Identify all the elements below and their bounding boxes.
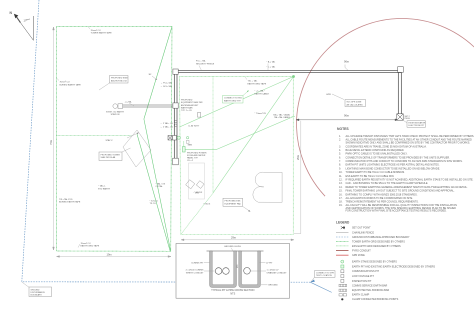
svg-text:TOWER EARTH TO BE 70mm² CU CAB: TOWER EARTH TO BE 70mm² CU CABLE MINIMUM… bbox=[346, 171, 406, 174]
svg-text:CHAINLINK FENCE: CHAINLINK FENCE bbox=[352, 231, 374, 234]
svg-text:REFER TO TOWER EARTHING GENERA: REFER TO TOWER EARTHING GENERAL ARRANGEM… bbox=[346, 186, 468, 189]
callout stay anchor bbox=[99, 76, 128, 91]
svg-text:BURIED EARTH TAPE: BURIED EARTH TAPE bbox=[59, 201, 81, 204]
svg-text:CLAMP CONNECTED BONDING POINTS: CLAMP CONNECTED BONDING POINTS bbox=[352, 298, 399, 301]
svg-text:PROPOSED TOWER: PROPOSED TOWER bbox=[101, 154, 121, 156]
legend symbol: earth clamp bbox=[339, 294, 347, 296]
svg-text:10.: 10. bbox=[339, 171, 343, 174]
svg-text:7.: 7. bbox=[339, 160, 341, 163]
svg-text:11.: 11. bbox=[339, 175, 343, 178]
svg-text:14.: 14. bbox=[339, 186, 343, 189]
dimension line below ESS grid bbox=[181, 239, 294, 241]
svg-text:⌜ TAL / XX: ⌜ TAL / XX bbox=[156, 182, 166, 185]
svg-text:13.: 13. bbox=[339, 182, 343, 185]
svg-text:PEGS: PEGS bbox=[405, 118, 411, 120]
svg-text:← 2 TAL+ CU: ← 2 TAL+ CU bbox=[160, 122, 173, 125]
svg-text:TAL+TAL CABLE: TAL+TAL CABLE bbox=[274, 116, 290, 119]
svg-text:ESS EARTH TO BE 70mm² CU CABLE: ESS EARTH TO BE 70mm² CU CABLE MIN. bbox=[346, 175, 395, 178]
north arrow bbox=[17, 16, 34, 40]
ESS branch horizontal bbox=[185, 148, 217, 150]
svg-text:EARTH PIT AND EXISTING EARTH E: EARTH PIT AND EXISTING EARTH ELECTRODE D… bbox=[352, 265, 435, 268]
svg-text:EARTH GRID TYP.: EARTH GRID TYP. bbox=[224, 100, 241, 103]
svg-text:96m: 96m bbox=[344, 60, 349, 64]
legend symbol: chainlink fence bbox=[336, 231, 349, 233]
lv conduit bbox=[244, 268, 251, 275]
svg-text:CAD - CAD BONDING TO BE 95mm²: CAD - CAD BONDING TO BE 95mm² TO THE EAR… bbox=[346, 182, 429, 185]
svg-text:96m: 96m bbox=[344, 114, 349, 118]
svg-text:ALL UPGRADE TRENCH DISTANCES T: ALL UPGRADE TRENCH DISTANCES THAT LETS H… bbox=[346, 135, 474, 138]
svg-text:TXL+TAL SYD: TXL+TAL SYD bbox=[59, 198, 73, 201]
svg-text:18.: 18. bbox=[339, 201, 343, 204]
earth stake green bbox=[177, 136, 180, 139]
fence corner box bbox=[398, 67, 404, 73]
svg-text:ESS EARTH GRID DESIGNED BY OTH: ESS EARTH GRID DESIGNED BY OTHERS bbox=[352, 245, 401, 248]
svg-text:SECURITY FENCE: SECURITY FENCE bbox=[196, 63, 215, 65]
svg-text:PROPOSED STAY: PROPOSED STAY bbox=[111, 77, 128, 80]
svg-text:⌜ +L+ TAL°: ⌜ +L+ TAL° bbox=[255, 90, 265, 93]
svg-text:← 2 TAL+ CU: ← 2 TAL+ CU bbox=[160, 125, 173, 128]
callout boundary right bbox=[310, 271, 335, 283]
svg-text:NOTES: NOTES bbox=[337, 127, 349, 131]
bonding cluster bbox=[168, 136, 177, 141]
legend symbol: ess earth grid bbox=[336, 245, 349, 247]
svg-text:LL AT NXTT: LL AT NXTT bbox=[189, 124, 201, 127]
svg-text:EARTH GRID TAPE: EARTH GRID TAPE bbox=[81, 245, 100, 248]
label ess right bbox=[273, 113, 291, 119]
svg-text:BOUNDARY: BOUNDARY bbox=[31, 294, 43, 297]
svg-text:STAY X: STAY X bbox=[106, 139, 114, 142]
svg-text:IF REQUIRED EARTH RESISTIVITY: IF REQUIRED EARTH RESISTIVITY IS NOT ACH… bbox=[346, 179, 474, 182]
svg-text:EQUIPMENT PAD: EQUIPMENT PAD bbox=[225, 202, 242, 205]
svg-text:⌜ A = TAL: ⌜ A = TAL bbox=[267, 61, 277, 64]
svg-text:EARTHING TO COMPLY WITH AS/NZS: EARTHING TO COMPLY WITH AS/NZS 3000:2018… bbox=[346, 193, 418, 196]
svg-text:4.: 4. bbox=[339, 149, 341, 152]
svg-text:EARTH STAKE DESIGNED BY OTHERS: EARTH STAKE DESIGNED BY OTHERS bbox=[352, 261, 397, 264]
dimension line left of tower grid bbox=[53, 27, 55, 250]
label spur conduit bbox=[125, 100, 135, 106]
svg-text:CU TAL: CU TAL bbox=[156, 185, 164, 188]
svg-text:ORANGE CONDUIT: ORANGE CONDUIT bbox=[267, 271, 288, 274]
svg-text:AS CALCULATED: AS CALCULATED bbox=[347, 103, 364, 106]
inspection points on trench bbox=[175, 120, 177, 122]
dimension line along compound fence bbox=[345, 65, 348, 71]
ESS edge tick bbox=[292, 116, 296, 118]
legend symbol: equipotential bonding bar bbox=[339, 289, 347, 291]
svg-text:SHOWN INDICATIVE ONLY AND SHAL: SHOWN INDICATIVE ONLY AND SHALL BE CONFI… bbox=[346, 141, 471, 144]
svg-text:70mm² CU: 70mm² CU bbox=[60, 81, 71, 84]
trench end pit bbox=[173, 158, 179, 165]
svg-text:36°: 36° bbox=[149, 74, 152, 76]
ESS diagonal conductor 1 bbox=[180, 77, 294, 128]
tower stay conductor B bbox=[144, 119, 171, 251]
svg-text:TX CU: TX CU bbox=[150, 203, 157, 205]
earth stake at kiosk bbox=[186, 137, 188, 139]
svg-text:SET OUT POINT: SET OUT POINT bbox=[352, 227, 371, 230]
svg-text:16.: 16. bbox=[339, 193, 343, 196]
callout gpr zone bbox=[326, 94, 366, 107]
tower grid branch (horizontal) bbox=[57, 134, 132, 136]
svg-text:ALL EXCAVATION WORKS TO BE COO: ALL EXCAVATION WORKS TO BE COORDINATED O… bbox=[346, 197, 414, 200]
svg-text:19m: 19m bbox=[107, 252, 112, 256]
svg-text:FCL + TAL: FCL + TAL bbox=[196, 60, 207, 63]
svg-text:6.: 6. bbox=[339, 156, 341, 159]
svg-text:19.: 19. bbox=[339, 204, 343, 207]
svg-text:LEGEND: LEGEND bbox=[336, 220, 350, 224]
svg-text:COMMS PIT: COMMS PIT bbox=[191, 262, 204, 264]
svg-text:TAL+ TAL / LATAL: TAL+ TAL / LATAL bbox=[273, 113, 291, 116]
svg-text:SYD EARTH: SYD EARTH bbox=[98, 187, 110, 190]
tower earth grid rectangle (green dotted) bbox=[57, 27, 173, 252]
legend symbol: earth stake bbox=[341, 260, 344, 263]
lv pit walls bbox=[239, 251, 261, 288]
dimension line GPR radius bbox=[296, 119, 398, 121]
svg-text:CONNECTION DETAILS OF TRANSFOR: CONNECTION DETAILS OF TRANSFORMERS TO BE… bbox=[346, 156, 451, 159]
callout ess slab bbox=[223, 198, 251, 212]
svg-text:GPR: GPR bbox=[326, 94, 331, 96]
svg-text:TYPICAL PIT & PIPE CROSS SECTI: TYPICAL PIT & PIPE CROSS SECTION bbox=[211, 289, 254, 292]
comms conduit 1 bbox=[215, 268, 222, 275]
svg-text:DISTURBANCE: DISTURBANCE bbox=[31, 291, 46, 294]
label tower grid tape top bbox=[88, 27, 112, 35]
notes list bbox=[339, 135, 474, 213]
svg-text:EARTH CLAMP: EARTH CLAMP bbox=[352, 294, 370, 297]
svg-text:17°: 17° bbox=[24, 19, 28, 23]
pit connector bbox=[183, 141, 185, 147]
svg-text:FOR CONSTRUCTION WITH FINAL SI: FOR CONSTRUCTION WITH FINAL SITE ACCEPTA… bbox=[346, 209, 448, 212]
svg-text:BLUE METAL EXTEND COMPOUND AS: BLUE METAL EXTEND COMPOUND AS REQUIRED. bbox=[346, 149, 405, 152]
north arrowhead N bbox=[10, 11, 28, 23]
svg-text:⌜ TAL/XX: ⌜ TAL/XX bbox=[194, 191, 203, 194]
detail box frame bbox=[176, 244, 290, 299]
svg-text:⌜ XXL/X: ⌜ XXL/X bbox=[203, 203, 211, 206]
svg-text:⌜ 70mm² CU: ⌜ 70mm² CU bbox=[255, 112, 267, 115]
svg-text:5.: 5. bbox=[339, 153, 341, 156]
svg-text:EARTH BAR: EARTH BAR bbox=[181, 106, 193, 109]
GPR zone arc (red) bbox=[297, 19, 474, 230]
compound fence top (black double line) bbox=[174, 71, 401, 73]
legend symbol: earth pit bbox=[341, 265, 344, 268]
label ess grid top bbox=[245, 77, 267, 85]
tower stay conductor C bbox=[137, 134, 170, 251]
kiosk slab outline bbox=[189, 163, 205, 199]
lv pit label bbox=[266, 262, 287, 286]
ground level line bbox=[207, 250, 264, 252]
svg-text:PROPOSED ESS: PROPOSED ESS bbox=[225, 201, 242, 203]
svg-text:+L+TAL: +L+TAL bbox=[125, 100, 133, 103]
svg-text:GROUND DISTURBANCE APPROVED BO: GROUND DISTURBANCE APPROVED BOUNDARY bbox=[352, 236, 410, 239]
junction box mid bbox=[173, 103, 178, 108]
comms pit label bbox=[186, 262, 205, 274]
svg-text:COMMUNICATIONS PIT: COMMUNICATIONS PIT bbox=[352, 270, 380, 273]
building rotated (tower shelter) bbox=[123, 130, 151, 167]
svg-text:GROUND LEVEL: GROUND LEVEL bbox=[224, 246, 242, 248]
legend symbol: gpr zone bbox=[336, 254, 349, 256]
svg-text:ANCHOR BLOCK: ANCHOR BLOCK bbox=[111, 80, 128, 83]
svg-text:KIOSK AND METER: KIOSK AND METER bbox=[187, 154, 206, 157]
svg-text:1.: 1. bbox=[339, 135, 341, 138]
text block right of trench bbox=[181, 100, 203, 128]
ground disturbance boundary (blue dashed) bbox=[22, 0, 311, 282]
svg-text:EARTH CABLE: EARTH CABLE bbox=[255, 92, 270, 95]
spur conduit (black double line) bbox=[122, 105, 175, 107]
label earth stake left bbox=[106, 111, 124, 117]
svg-text:PARK OPTIC CABLE IS TO BE UNAL: PARK OPTIC CABLE IS TO BE UNALINSTALLED … bbox=[346, 153, 408, 156]
svg-text:ANTENNA MOUNT: ANTENNA MOUNT bbox=[181, 104, 199, 107]
label stay vertex bbox=[106, 133, 140, 142]
callout ess connect bbox=[223, 90, 250, 103]
ESS earth grid rectangle (light green dotted) bbox=[180, 77, 294, 235]
svg-text:COMMS SERVICE EARTH BAR: COMMS SERVICE EARTH BAR bbox=[352, 284, 387, 287]
svg-text:← FCL+TAL: ← FCL+TAL bbox=[161, 82, 173, 85]
legend symbol: bonding point bbox=[341, 298, 343, 300]
svg-text:EQUIPOTENTIAL BONDING BAR: EQUIPOTENTIAL BONDING BAR bbox=[352, 289, 389, 292]
svg-text:GROUND: GROUND bbox=[268, 285, 278, 287]
svg-text:TOWER EARTH GRID DESIGNED BY O: TOWER EARTH GRID DESIGNED BY OTHERS bbox=[352, 240, 405, 243]
legend symbol: comms service earth bar bbox=[339, 284, 347, 286]
boundary leader to GPR point (blue solid) bbox=[310, 282, 331, 292]
legend symbol: inspection pit bbox=[341, 279, 344, 282]
svg-text:EARTH GRID TAPE: EARTH GRID TAPE bbox=[248, 82, 267, 85]
svg-text:NTS: NTS bbox=[230, 292, 235, 295]
svg-text:GPR ZONE: GPR ZONE bbox=[352, 254, 365, 257]
svg-text:TYP. 2 x CU: TYP. 2 x CU bbox=[181, 110, 192, 112]
svg-text:2.: 2. bbox=[339, 139, 341, 142]
fence right vertical (black double line) bbox=[398, 71, 401, 117]
svg-text:ELECTRODE PIT: ELECTRODE PIT bbox=[409, 125, 426, 127]
svg-text:EXIST. CU EARTH: EXIST. CU EARTH bbox=[106, 111, 124, 114]
svg-text:FINAL TOWER EARTHING LAYOUT SU: FINAL TOWER EARTHING LAYOUT SUBJECT TO S… bbox=[346, 190, 455, 193]
legend list text bbox=[352, 227, 435, 302]
svg-text:BURIED EARTH TAPE: BURIED EARTH TAPE bbox=[60, 83, 82, 86]
ESS diagonal conductor 2 bbox=[213, 77, 294, 194]
tower stay conductor A bbox=[144, 27, 172, 120]
svg-text:1 x Ø100 LV: 1 x Ø100 LV bbox=[267, 270, 280, 272]
bearing annotation bbox=[149, 74, 158, 80]
trench left vertical (black double line) bbox=[174, 71, 177, 159]
svg-text:TRENCH REINSTATEMENT AS PER CO: TRENCH REINSTATEMENT AS PER COUNCIL REQU… bbox=[346, 201, 419, 204]
svg-text:17.: 17. bbox=[339, 197, 343, 200]
svg-text:SHELTER SLAB: SHELTER SLAB bbox=[101, 156, 116, 159]
svg-text:TXL + TAL: TXL + TAL bbox=[248, 80, 259, 83]
svg-text:75m: 75m bbox=[49, 140, 53, 145]
ESS corner node bbox=[292, 75, 295, 78]
ESS building bbox=[253, 172, 282, 202]
svg-text:CU x 2: CU x 2 bbox=[187, 160, 194, 162]
label left lower2 bbox=[59, 198, 81, 204]
callout electrode bbox=[404, 116, 426, 127]
svg-text:70mm² CU: 70mm² CU bbox=[91, 29, 102, 32]
junction box top corner bbox=[173, 69, 178, 74]
callout tower shelter bbox=[99, 148, 131, 161]
svg-text:15.: 15. bbox=[339, 190, 343, 193]
svg-text:CONNECT TO ESS: CONNECT TO ESS bbox=[224, 98, 242, 100]
label tower grid bottom bbox=[78, 242, 100, 248]
label grid left lower bbox=[98, 185, 110, 191]
svg-text:COMMUNICATION PITS AND CONDUIT: COMMUNICATION PITS AND CONDUIT TO CONFOR… bbox=[346, 160, 463, 163]
labels left of trench bbox=[160, 82, 173, 129]
ESS branch diagonal bbox=[217, 117, 293, 150]
svg-text:2 x Ø100 COMMS: 2 x Ø100 COMMS bbox=[186, 270, 204, 272]
label ess mid 1 bbox=[255, 90, 270, 96]
pit diamonds on diagonal bbox=[186, 180, 195, 189]
legend symbol: pyro conduit bbox=[336, 249, 349, 251]
svg-text:96m GPR ZONE: 96m GPR ZONE bbox=[347, 102, 363, 104]
comms pit walls bbox=[210, 251, 237, 288]
svg-text:70mm² CU: 70mm² CU bbox=[81, 242, 92, 245]
ESS grid interior vertical bbox=[181, 77, 213, 235]
svg-text:PYRO CONDUIT: PYRO CONDUIT bbox=[352, 249, 371, 252]
svg-text:8.: 8. bbox=[339, 164, 341, 167]
svg-text:LIGHTNING MAIN BOND CONDUCTOR: LIGHTNING MAIN BOND CONDUCTOR TO BE INST… bbox=[346, 167, 441, 170]
text block kiosk bbox=[187, 152, 207, 162]
legend symbol: tower earth grid bbox=[336, 241, 349, 243]
svg-text:MEB: MEB bbox=[188, 144, 193, 146]
svg-text:29m: 29m bbox=[296, 155, 300, 160]
earth pit green (kiosk) bbox=[183, 147, 186, 153]
svg-text:INSPECTION PIT: INSPECTION PIT bbox=[352, 280, 372, 283]
svg-text:STATION: STATION bbox=[111, 113, 120, 116]
svg-text:LV PIT: LV PIT bbox=[266, 262, 273, 264]
svg-text:TEST LOCATION: TEST LOCATION bbox=[316, 274, 332, 277]
legend symbol: boundary bbox=[336, 236, 349, 238]
svg-text:9.: 9. bbox=[339, 167, 341, 170]
comms conduit 2 bbox=[223, 268, 230, 275]
earth stake with pit (left spur) bbox=[113, 104, 118, 109]
svg-text:CONNECT TO GPR: CONNECT TO GPR bbox=[316, 273, 335, 275]
label fence mid ticks bbox=[267, 61, 277, 71]
svg-text:⌜ XXL+X: ⌜ XXL+X bbox=[150, 199, 159, 202]
svg-text:LOW VOLTAGE PIT: LOW VOLTAGE PIT bbox=[352, 275, 374, 278]
svg-text:EXISTING EARTH: EXISTING EARTH bbox=[409, 122, 426, 125]
dimension line right of ESS grid bbox=[294, 121, 301, 234]
svg-text:PANEL TYP.: PANEL TYP. bbox=[187, 157, 198, 160]
label trench diag 1 bbox=[156, 182, 166, 188]
legend symbol: low voltage pit bbox=[341, 275, 344, 278]
svg-text:29m: 29m bbox=[231, 236, 236, 240]
svg-text:EARTH PIT UNITS LIGHTNING ELEC: EARTH PIT UNITS LIGHTNING ELECTRODE AS P… bbox=[346, 164, 440, 167]
label tower grid tape left bbox=[57, 78, 82, 86]
earth electrode right bbox=[397, 114, 403, 120]
label trench diag 2 bbox=[150, 199, 159, 205]
legend symbol: set out point bbox=[341, 226, 345, 229]
svg-text:← SCL+TAL: ← SCL+TAL bbox=[160, 85, 172, 88]
callout boundary bottom left bbox=[22, 282, 52, 297]
svg-text:TOWER EARTH TAPE: TOWER EARTH TAPE bbox=[91, 32, 113, 35]
svg-text:WHITE CONDUIT: WHITE CONDUIT bbox=[186, 272, 204, 274]
dimension line below tower grid bbox=[57, 256, 172, 258]
svg-text:12.: 12. bbox=[339, 179, 343, 182]
legend symbol: communications pit bbox=[341, 270, 344, 273]
label fence top bbox=[196, 60, 215, 71]
svg-text:⌜ TAL+L: ⌜ TAL+L bbox=[98, 185, 106, 188]
